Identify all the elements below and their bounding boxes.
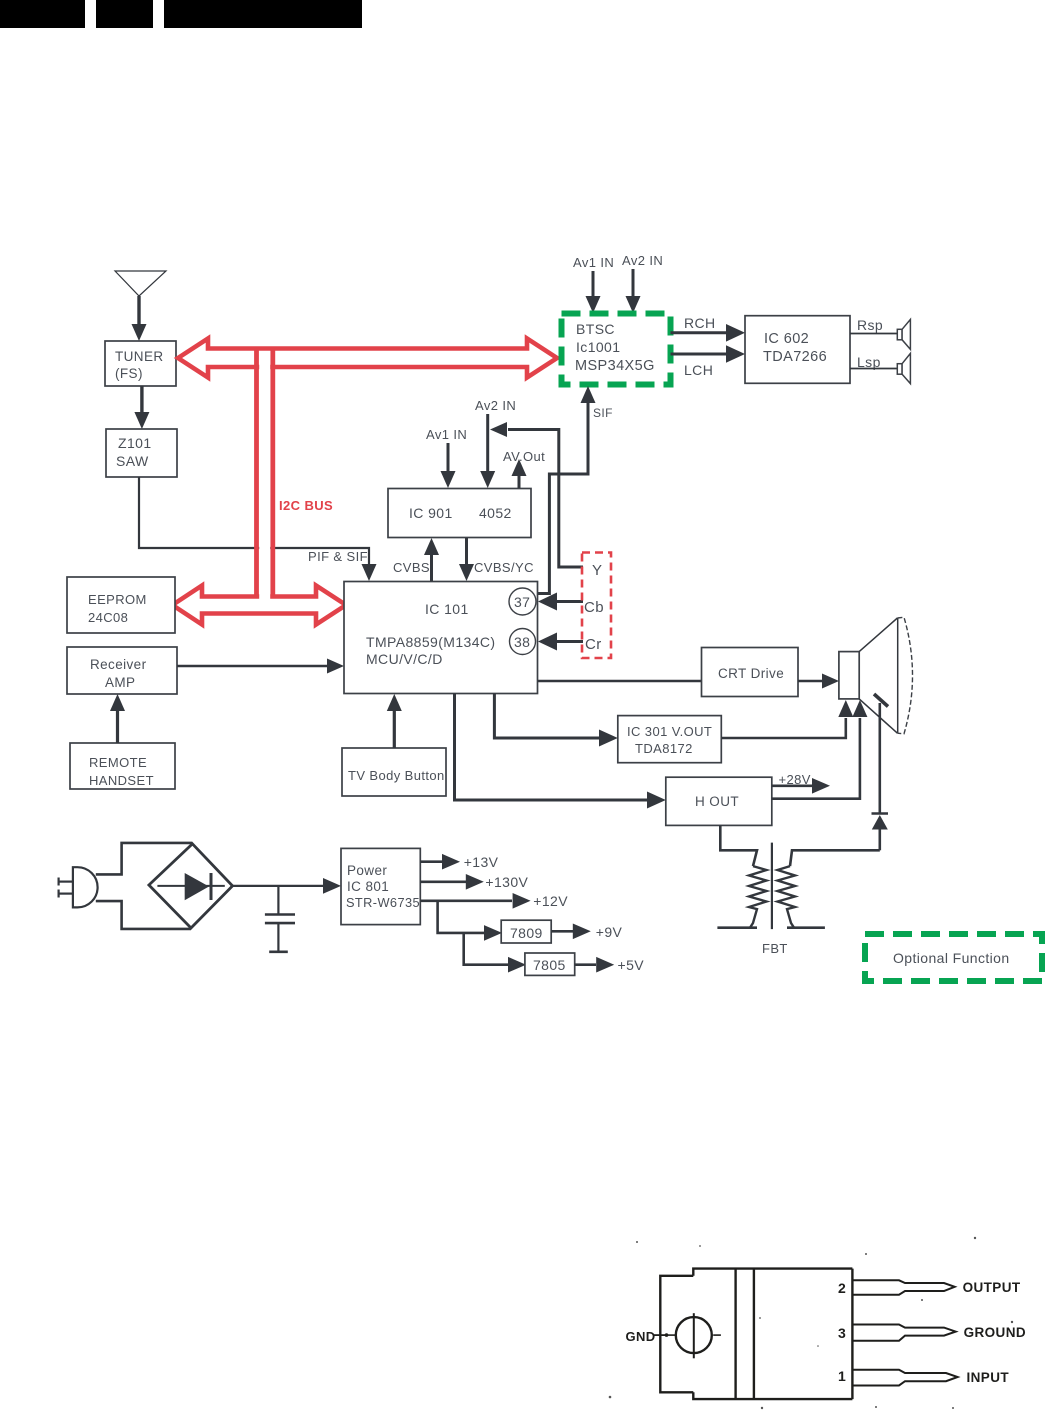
svg-text:Rsp: Rsp	[857, 317, 883, 333]
svg-text:7805: 7805	[533, 957, 566, 973]
svg-text:Cb: Cb	[584, 599, 604, 616]
svg-text:FBT: FBT	[762, 941, 788, 956]
svg-text:Ic1001: Ic1001	[576, 339, 620, 355]
svg-text:Av1 IN: Av1 IN	[426, 427, 467, 442]
svg-text:MCU/V/C/D: MCU/V/C/D	[366, 651, 443, 667]
svg-text:+12V: +12V	[533, 893, 568, 909]
svg-text:Av2 IN: Av2 IN	[475, 398, 516, 413]
svg-text:RCH: RCH	[684, 315, 716, 331]
svg-text:Av1 IN: Av1 IN	[573, 255, 614, 270]
svg-text:MSP34X5G: MSP34X5G	[575, 358, 655, 374]
svg-text:24C08: 24C08	[88, 610, 128, 625]
svg-text:+130V: +130V	[485, 874, 528, 890]
svg-text:Optional Function: Optional Function	[893, 950, 1010, 966]
svg-text:TUNER: TUNER	[115, 349, 164, 364]
svg-text:PIF & SIF: PIF & SIF	[308, 549, 368, 564]
svg-text:Av2 IN: Av2 IN	[622, 253, 663, 268]
svg-text:OUTPUT: OUTPUT	[963, 1280, 1021, 1295]
svg-text:IC 602: IC 602	[764, 331, 809, 347]
svg-text:GROUND: GROUND	[964, 1325, 1026, 1340]
svg-text:37: 37	[514, 594, 530, 610]
svg-text:EEPROM: EEPROM	[88, 592, 147, 607]
svg-text:STR-W6735: STR-W6735	[346, 895, 420, 910]
svg-text:GND: GND	[626, 1329, 656, 1344]
svg-text:TMPA8859(M134C): TMPA8859(M134C)	[366, 634, 495, 650]
svg-text:IC 301 V.OUT: IC 301 V.OUT	[627, 724, 712, 739]
svg-text:BTSC: BTSC	[576, 321, 615, 337]
svg-text:AMP: AMP	[105, 675, 135, 690]
svg-text:REMOTE: REMOTE	[89, 755, 147, 770]
svg-text:Cr: Cr	[585, 636, 602, 653]
svg-text:SAW: SAW	[116, 453, 149, 469]
svg-text:TDA8172: TDA8172	[635, 741, 693, 756]
svg-text:1: 1	[838, 1368, 846, 1384]
svg-text:CVBS/YC: CVBS/YC	[474, 560, 534, 575]
svg-text:38: 38	[514, 634, 530, 650]
svg-text:IC 901: IC 901	[409, 505, 453, 521]
svg-text:Receiver: Receiver	[90, 657, 147, 672]
svg-text:7809: 7809	[510, 925, 543, 941]
svg-text:I2C BUS: I2C BUS	[279, 498, 333, 513]
svg-text:Z101: Z101	[118, 435, 152, 451]
svg-text:LCH: LCH	[684, 362, 713, 378]
svg-text:2: 2	[838, 1280, 846, 1296]
svg-text:INPUT: INPUT	[967, 1370, 1010, 1385]
svg-text:H OUT: H OUT	[695, 794, 739, 809]
svg-text:AV.Out: AV.Out	[503, 449, 545, 464]
svg-text:TDA7266: TDA7266	[763, 349, 827, 365]
svg-text:4052: 4052	[479, 505, 512, 521]
svg-text:+9V: +9V	[596, 924, 623, 940]
svg-text:CRT Drive: CRT Drive	[718, 666, 784, 681]
svg-text:TV Body Button: TV Body Button	[348, 768, 445, 783]
svg-text:IC 101: IC 101	[425, 601, 469, 617]
svg-text:HANDSET: HANDSET	[89, 773, 154, 788]
svg-text:CVBS: CVBS	[393, 560, 430, 575]
svg-text:3: 3	[838, 1325, 846, 1341]
svg-text:SIF: SIF	[593, 406, 613, 420]
svg-text:+5V: +5V	[618, 957, 645, 973]
svg-text:+13V: +13V	[464, 854, 499, 870]
svg-text:(FS): (FS)	[115, 366, 143, 381]
svg-text:Y: Y	[592, 562, 602, 579]
svg-text:Power: Power	[347, 863, 387, 878]
svg-text:IC 801: IC 801	[347, 879, 389, 894]
